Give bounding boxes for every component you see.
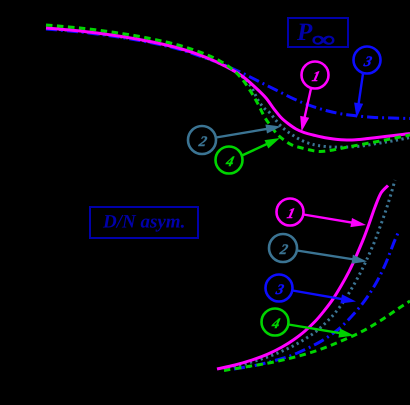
top arrow 4 (242, 143, 268, 155)
bottom annotation circle 2 (gray) (269, 234, 297, 262)
bottom plot: curve 2 gray dotted (228, 180, 395, 368)
bottom arrow 1 (304, 215, 354, 223)
bottom annotation circle 3 (blue) (266, 275, 293, 302)
bottom plot: curve 3 blue dash-dot (234, 233, 398, 369)
top annotation circle 2 (gray) (188, 126, 216, 154)
bottom plot: curve 4 green dashed (224, 301, 410, 371)
D/N asym. label box (90, 207, 198, 238)
top annotation circle 3 (blue) (354, 47, 381, 74)
P-infinity label box (288, 18, 348, 47)
top arrow 2 (216, 129, 268, 138)
svg-text:∞: ∞ (312, 28, 335, 52)
top plot: curve 2 gray dotted (48, 29, 410, 148)
top annotation circle 4 (green) (216, 147, 243, 174)
top plot: curve 1 magenta solid (46, 28, 410, 140)
svg-text:D/N asym.: D/N asym. (102, 212, 185, 233)
bottom arrow 2 (297, 251, 354, 260)
bottom plot: curve 1 magenta solid (217, 186, 388, 370)
bottom annotation circle 1 (magenta) (277, 199, 304, 226)
top plot: curve 3 blue dash-dot (46, 29, 410, 119)
top arrow 3 (358, 74, 363, 106)
bottom arrow 4 (289, 325, 342, 334)
bottom arrow 3 (293, 291, 344, 300)
top arrow 1 (304, 89, 311, 119)
bottom annotation circle 4 (green) (262, 309, 289, 336)
top plot: curve 4 green dashed (46, 25, 410, 152)
top annotation circle 1 (magenta) (302, 62, 329, 89)
svg-text:P: P (296, 19, 313, 46)
